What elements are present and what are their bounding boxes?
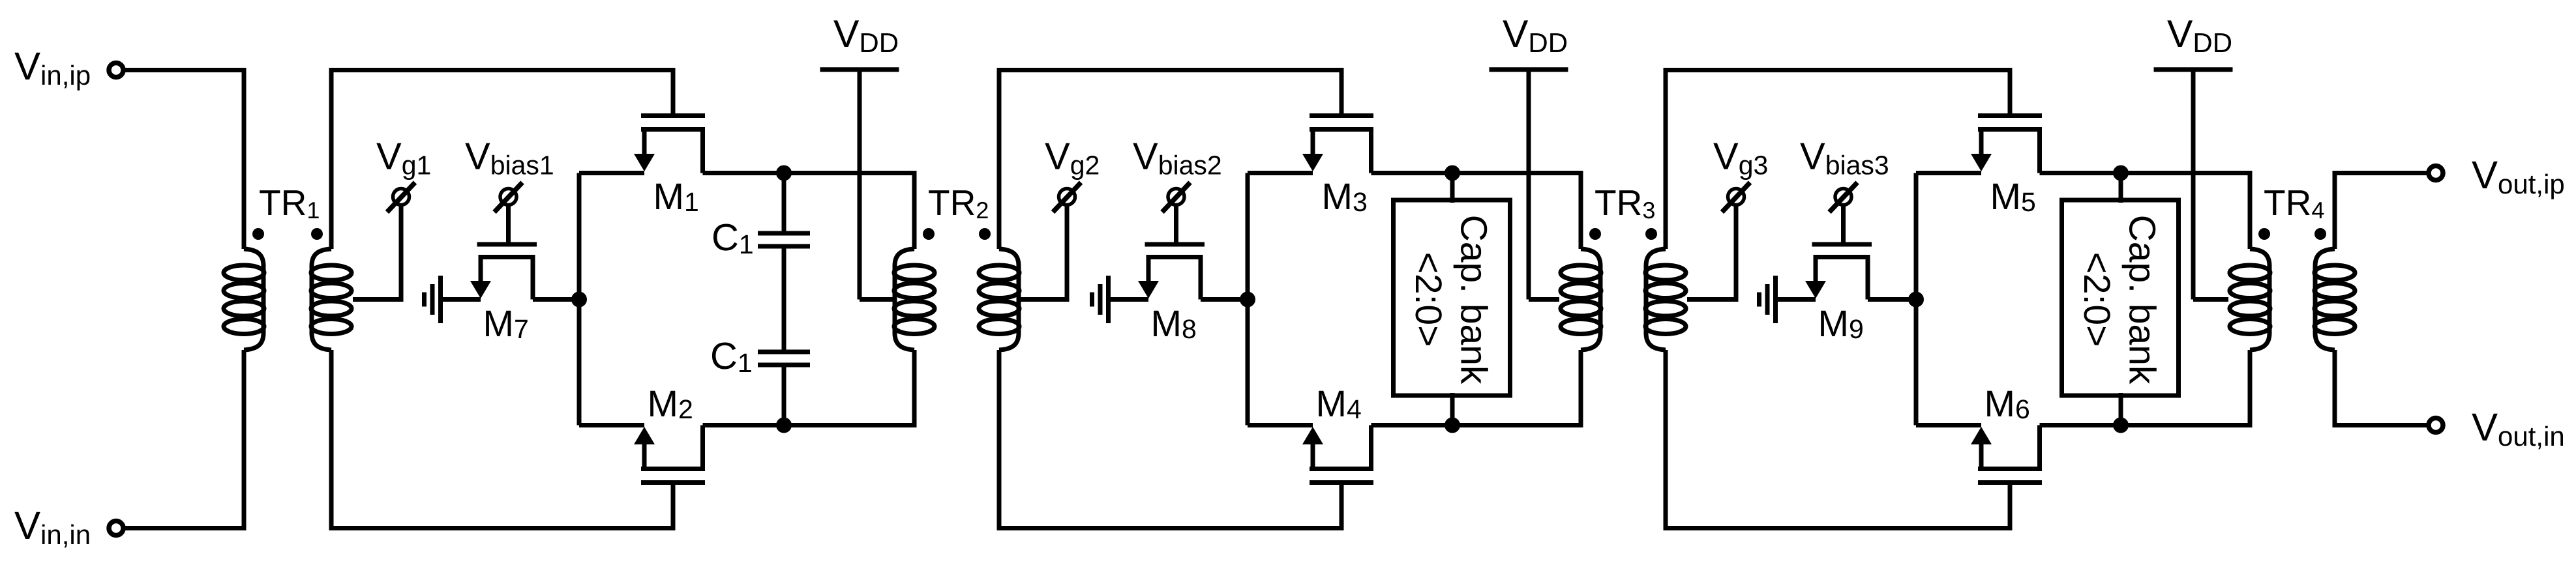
wire M9 drain to tail node — [1868, 297, 1916, 302]
svg-text:M4: M4 — [1316, 383, 1362, 425]
polarity dot TR4 secondary — [2314, 228, 2326, 240]
svg-text:Cap. bank: Cap. bank — [2121, 215, 2163, 384]
power VDD supply bar at x=3363 — [2154, 67, 2233, 72]
junction node stage2 bottom — [1445, 418, 1460, 433]
wire VDD stem down to transformer centre tap — [2191, 70, 2196, 300]
svg-text:M7: M7 — [483, 303, 529, 345]
wire stage3 bottom gate bus — [1666, 350, 2010, 528]
svg-text:VDD: VDD — [1503, 12, 1568, 58]
wire between C1 capacitors — [782, 246, 786, 352]
transformer TR4 primary coil — [2230, 249, 2270, 350]
svg-text:TR2: TR2 — [928, 182, 989, 224]
junction tail node stage3 — [1908, 292, 1924, 308]
svg-text:Vin,ip: Vin,ip — [14, 44, 91, 91]
svg-text:Vg2: Vg2 — [1045, 136, 1100, 180]
port symbol Vg2 — [1053, 182, 1081, 212]
svg-text:Vbias3: Vbias3 — [1800, 136, 1889, 180]
junction node stage2 top — [1445, 166, 1460, 181]
port symbol Vbias3 — [1829, 182, 1857, 212]
transformer TR2 primary coil — [894, 249, 935, 350]
wire cap bank stage3 bottom stub — [2119, 393, 2123, 426]
wire TR4 secondary top to Vout,ip — [2335, 173, 2429, 250]
polarity dot TR3 secondary — [1645, 228, 1657, 240]
wire VDD tap to TR3 primary centre tap — [1529, 297, 1559, 302]
svg-text:C1: C1 — [711, 216, 754, 259]
wire C1 top connection — [782, 173, 786, 232]
wire TR2 secondary centre tap to Vg2 — [1021, 205, 1067, 300]
wire M3 source — [1248, 171, 1313, 175]
capacitor C1 upper — [758, 231, 810, 236]
wire ground to M8 source — [1109, 297, 1149, 302]
svg-text:M5: M5 — [1990, 176, 2036, 218]
svg-text:TR3: TR3 — [1595, 182, 1655, 224]
wire cap bank stage2 bottom stub — [1450, 393, 1455, 426]
wire stage1 top gate bus — [331, 70, 673, 250]
label Cap. bank <2:0> stage2 — [1407, 215, 1495, 384]
power VDD supply bar at x=1318 — [820, 67, 899, 72]
wire cap bank stage2 top stub — [1450, 173, 1455, 203]
label Cap. bank <2:0> stage3 — [2076, 215, 2163, 384]
transistor M9 tail current source — [1812, 242, 1872, 247]
wire Vin,in to TR1 primary bottom — [123, 350, 244, 528]
transistor M6 — [1978, 480, 2042, 485]
output terminal Vout,ip — [2429, 166, 2443, 180]
wire M2 source — [579, 423, 644, 427]
wire stage2 bottom gate bus — [999, 350, 1341, 528]
wire stage1 bottom gate bus — [331, 350, 673, 528]
transformer TR1 secondary coil — [311, 249, 352, 350]
junction node stage1 top — [776, 166, 792, 181]
polarity dot TR2 secondary — [979, 228, 991, 240]
svg-text:Vg1: Vg1 — [376, 136, 431, 180]
input terminal Vin,ip — [109, 63, 123, 78]
port symbol Vg3 — [1722, 182, 1750, 212]
wire M4 source — [1248, 423, 1313, 427]
ground symbol at M8 source — [1092, 276, 1109, 323]
wire M5 source — [1916, 171, 1981, 175]
svg-text:Vbias2: Vbias2 — [1133, 136, 1222, 180]
svg-text:M9: M9 — [1818, 303, 1864, 345]
junction tail node stage1 — [571, 292, 587, 308]
capacitor C1 lower — [758, 350, 810, 354]
svg-text:C1: C1 — [710, 335, 753, 378]
transistor M5 — [1978, 113, 2042, 118]
svg-text:TR4: TR4 — [2264, 182, 2324, 224]
wire M1 drain to TR2 primary top — [703, 173, 915, 250]
wire M1 source — [579, 171, 644, 175]
junction node stage1 bottom — [776, 418, 792, 433]
wire VDD tap to TR2 primary centre tap — [860, 297, 893, 302]
svg-text:Vbias1: Vbias1 — [465, 136, 554, 180]
wire common-source line stage1 — [577, 173, 582, 426]
wire ground to M9 source — [1776, 297, 1816, 302]
wire Vin,ip to TR1 primary top — [123, 70, 244, 250]
wire stage2 top gate bus — [999, 70, 1341, 250]
port symbol Vg1 — [387, 182, 415, 212]
transformer TR3 primary coil — [1561, 249, 1601, 350]
wire VDD stem down to transformer centre tap — [1527, 70, 1531, 300]
wire cap bank stage3 top stub — [2119, 173, 2123, 203]
svg-text:Vout,in: Vout,in — [2472, 405, 2565, 452]
transistor M7 tail current source — [477, 242, 537, 247]
port symbol Vbias2 — [1162, 182, 1190, 212]
junction node stage3 top — [2113, 166, 2129, 181]
polarity dot TR3 primary — [1589, 228, 1601, 240]
power VDD supply bar at x=2344 — [1490, 67, 1568, 72]
transistor M8 tail current source — [1145, 242, 1205, 247]
wire C1 bottom connection — [782, 365, 786, 426]
input terminal Vin,in — [109, 521, 123, 536]
transistor M3 — [1310, 113, 1373, 118]
cap bank <2:0> stage2 box — [1394, 200, 1510, 396]
transistor M2 — [641, 480, 705, 485]
polarity dot TR4 primary — [2258, 228, 2270, 240]
svg-text:M8: M8 — [1151, 303, 1197, 345]
svg-text:M6: M6 — [1984, 383, 2030, 425]
transistor M1 — [641, 113, 705, 118]
wire common-source line stage2 — [1246, 173, 1250, 426]
wire stage3 top gate bus — [1666, 70, 2010, 250]
svg-text:Vin,in: Vin,in — [14, 504, 91, 550]
polarity dot TR1 secondary — [311, 228, 323, 240]
ground symbol at M9 source — [1760, 276, 1776, 323]
junction tail node stage2 — [1240, 292, 1255, 308]
output terminal Vout,in — [2429, 418, 2443, 433]
wire M7 drain to tail node — [533, 297, 579, 302]
wire common-source line stage3 — [1914, 173, 1919, 426]
transformer TR4 secondary coil — [2314, 249, 2355, 350]
wire M8 drain to tail node — [1201, 297, 1248, 302]
svg-text:VDD: VDD — [833, 12, 899, 58]
transistor M4 — [1310, 480, 1373, 485]
svg-text:Vg3: Vg3 — [1713, 136, 1768, 180]
wire VDD tap to TR4 primary centre tap — [2193, 297, 2228, 302]
svg-text:<2:0>: <2:0> — [2076, 252, 2118, 347]
wire M3 drain to TR3 primary top — [1371, 173, 1581, 250]
svg-text:M1: M1 — [653, 176, 699, 218]
svg-text:TR1: TR1 — [259, 182, 320, 224]
ground symbol at M7 source — [425, 276, 441, 323]
wire M6 source — [1916, 423, 1981, 427]
junction node stage3 bottom — [2113, 418, 2129, 433]
transformer TR2 secondary coil — [979, 249, 1019, 350]
svg-text:M3: M3 — [1322, 176, 1368, 218]
wire TR1 secondary centre tap to Vg1 — [353, 205, 401, 300]
cap bank <2:0> stage3 box — [2062, 200, 2179, 396]
polarity dot TR1 primary — [252, 228, 264, 240]
transformer TR3 secondary coil — [1645, 249, 1686, 350]
wire M4 drain to TR3 primary bottom — [1371, 350, 1581, 426]
svg-text:Cap. bank: Cap. bank — [1453, 215, 1495, 384]
wire M6 drain to TR4 primary bottom — [2040, 350, 2251, 426]
svg-text:<2:0>: <2:0> — [1407, 252, 1449, 347]
wire VDD stem down to transformer centre tap — [858, 70, 862, 300]
polarity dot TR2 primary — [923, 228, 935, 240]
port symbol Vbias1 — [494, 182, 522, 212]
wire TR3 secondary centre tap to Vg3 — [1687, 205, 1736, 300]
wire M2 drain to TR2 primary bottom — [703, 350, 915, 426]
svg-text:Vout,ip: Vout,ip — [2472, 153, 2565, 199]
wire M5 drain to TR4 primary top — [2040, 173, 2251, 250]
svg-text:VDD: VDD — [2167, 12, 2232, 58]
wire TR4 secondary bottom to Vout,in — [2335, 350, 2429, 426]
svg-text:M2: M2 — [648, 383, 693, 425]
wire ground to M7 source — [441, 297, 481, 302]
transformer TR1 primary coil — [224, 249, 264, 350]
